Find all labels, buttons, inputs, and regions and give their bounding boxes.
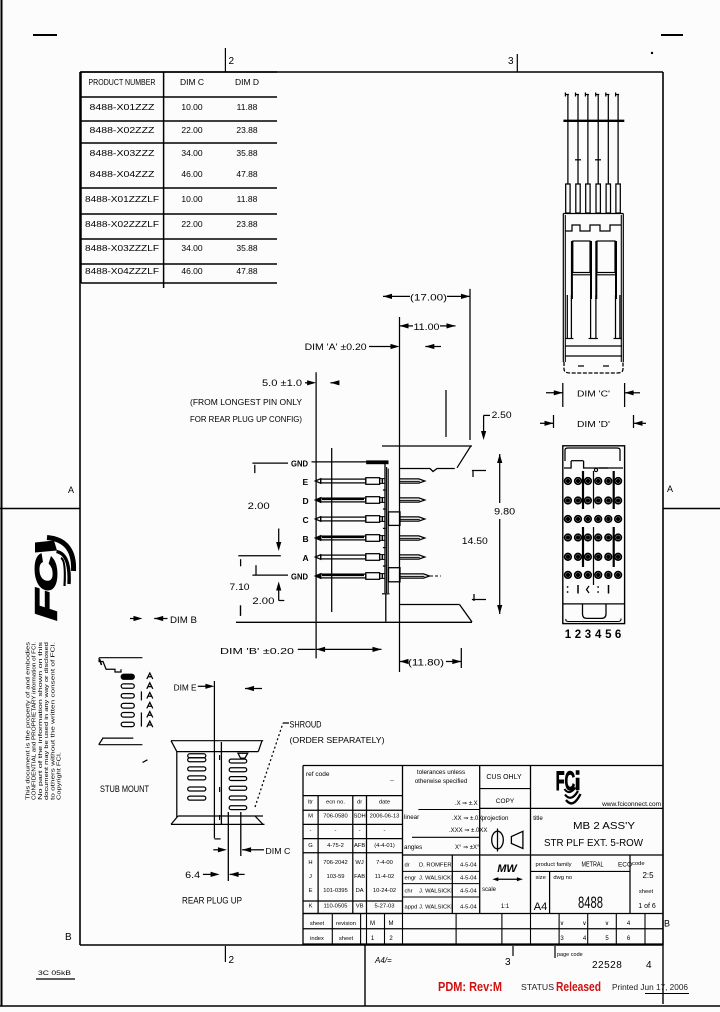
svg-text:STUB MOUNT: STUB MOUNT bbox=[100, 784, 149, 795]
svg-text:4-5-04: 4-5-04 bbox=[460, 905, 478, 911]
svg-text:⇒ ±.X: ⇒ ±.X bbox=[462, 801, 478, 807]
front view: contact grid 6x6 bbox=[565, 478, 622, 579]
svg-text:3: 3 bbox=[560, 936, 564, 942]
svg-text:A4/=: A4/= bbox=[374, 956, 392, 965]
svg-text:22.00: 22.00 bbox=[181, 219, 203, 229]
stub mount view: body bbox=[99, 658, 143, 745]
main view: row A reference bbox=[238, 529, 281, 567]
main view: dimension DIM 'A' +-0.20 bbox=[305, 342, 441, 352]
front view: pin position numbers 1-6 bbox=[565, 629, 622, 641]
svg-text:GND: GND bbox=[291, 459, 308, 469]
title block: outer lines bbox=[303, 766, 663, 946]
svg-text:7-4-00: 7-4-00 bbox=[376, 860, 393, 866]
svg-text:STATUS: STATUS bbox=[521, 983, 554, 992]
svg-text:METRAL: METRAL bbox=[582, 860, 604, 869]
main view: pin row GND bbox=[252, 572, 440, 582]
rear plug up: press-fit legs bbox=[228, 812, 241, 881]
svg-text:4: 4 bbox=[595, 629, 602, 641]
svg-text:35.88: 35.88 bbox=[236, 243, 258, 253]
main view: top GND pin bbox=[252, 459, 388, 474]
rear plug up: body walls bbox=[177, 742, 222, 824]
front view: polarizing ribs bbox=[583, 471, 614, 585]
svg-text:G: G bbox=[308, 843, 313, 849]
svg-text:linear: linear bbox=[404, 814, 419, 821]
title block: projection symbol bbox=[482, 815, 523, 852]
main view: wall serrations bbox=[383, 490, 386, 566]
svg-text:DIM B: DIM B bbox=[170, 615, 197, 625]
svg-text:B: B bbox=[664, 919, 670, 929]
svg-text:4: 4 bbox=[646, 960, 652, 971]
svg-text:9.80: 9.80 bbox=[494, 507, 515, 517]
svg-text:2: 2 bbox=[389, 936, 393, 942]
svg-text:7.10: 7.10 bbox=[230, 582, 250, 592]
svg-text:706-0580: 706-0580 bbox=[323, 814, 348, 820]
side view: bottom cap bbox=[564, 362, 623, 373]
zone labels and ticks bbox=[65, 48, 673, 971]
svg-text:(4-4-01): (4-4-01) bbox=[374, 843, 395, 849]
main view: pin row C bbox=[303, 515, 425, 525]
svg-text:∨: ∨ bbox=[560, 921, 564, 927]
svg-text:GND: GND bbox=[291, 572, 308, 582]
svg-text:8488-X02ZZZ: 8488-X02ZZZ bbox=[90, 125, 155, 135]
svg-text:title: title bbox=[533, 815, 543, 822]
svg-text:page code: page code bbox=[557, 952, 583, 958]
svg-text:sheet: sheet bbox=[310, 921, 325, 927]
svg-text:(FROM LONGEST PIN ONLY: (FROM LONGEST PIN ONLY bbox=[190, 397, 302, 407]
front view: top cavity bbox=[564, 448, 623, 472]
main view: dimension 11.00 bbox=[400, 317, 456, 672]
svg-text:PRODUCT NUMBER: PRODUCT NUMBER bbox=[89, 77, 156, 87]
svg-text:A: A bbox=[303, 553, 309, 563]
svg-text:2.00: 2.00 bbox=[252, 596, 274, 606]
svg-text:X° ⇒ ±X°: X° ⇒ ±X° bbox=[455, 845, 480, 851]
svg-text:2: 2 bbox=[575, 629, 581, 641]
svg-text:14.50: 14.50 bbox=[462, 536, 488, 546]
svg-text:E: E bbox=[303, 477, 309, 487]
left margin: form number bbox=[36, 971, 75, 979]
svg-text:2.50: 2.50 bbox=[492, 410, 512, 420]
svg-text:ecn no.: ecn no. bbox=[326, 800, 345, 806]
dimension DIM 'C' bbox=[546, 383, 640, 407]
svg-text:REAR PLUG UP: REAR PLUG UP bbox=[182, 896, 242, 907]
main view: pitch dim 2.00 lower bbox=[252, 565, 284, 606]
rear plug up: bottom flange bbox=[171, 816, 265, 824]
svg-text:index: index bbox=[310, 936, 324, 942]
svg-text:1:1: 1:1 bbox=[501, 904, 510, 910]
svg-text:to others without the writ: to others without the written consent of… bbox=[50, 642, 56, 800]
left margin: large FCI logo (rotated) bbox=[29, 538, 74, 621]
svg-text:4-5-04: 4-5-04 bbox=[460, 863, 478, 869]
svg-text:FAB: FAB bbox=[354, 874, 365, 880]
svg-text:A4: A4 bbox=[534, 901, 547, 913]
svg-text:11.88: 11.88 bbox=[237, 102, 258, 112]
svg-text:2:5: 2:5 bbox=[642, 871, 654, 880]
svg-text:22528: 22528 bbox=[592, 960, 622, 971]
svg-text:35.88: 35.88 bbox=[236, 148, 258, 158]
side view: contact windows bbox=[572, 241, 616, 299]
svg-text:2.00: 2.00 bbox=[248, 501, 270, 511]
title block: product family row bbox=[531, 860, 633, 872]
svg-text:11.88: 11.88 bbox=[237, 194, 258, 204]
svg-text:3: 3 bbox=[585, 629, 591, 641]
svg-text:3: 3 bbox=[505, 957, 511, 968]
svg-text:4-5-04: 4-5-04 bbox=[460, 876, 478, 882]
svg-text:sheet: sheet bbox=[639, 889, 654, 895]
side view: dashed standoff marks bbox=[575, 159, 601, 161]
svg-text:engr: engr bbox=[405, 876, 417, 882]
side view: base lines bbox=[565, 346, 622, 356]
svg-text:22.00: 22.00 bbox=[181, 125, 203, 135]
main view: mystery extension line bbox=[445, 390, 447, 437]
svg-text:23.88: 23.88 bbox=[236, 219, 258, 229]
main view: dimension 5.0 +-1.0 bbox=[262, 372, 339, 658]
svg-text:DIM E: DIM E bbox=[174, 683, 197, 693]
stub mount view: contact slots bbox=[121, 674, 134, 726]
svg-text:8488-X03ZZZ: 8488-X03ZZZ bbox=[90, 148, 155, 158]
svg-text:5: 5 bbox=[605, 629, 612, 641]
svg-text:MW: MW bbox=[497, 863, 518, 875]
svg-text:-: - bbox=[310, 828, 312, 834]
svg-text:K: K bbox=[309, 904, 313, 910]
svg-text:.XXX ⇒ ±.0XX: .XXX ⇒ ±.0XX bbox=[449, 828, 487, 834]
svg-text:M: M bbox=[308, 814, 313, 820]
note: from longest pin only bbox=[190, 397, 302, 424]
rear plug up: dimension DIM E bbox=[174, 681, 262, 839]
side view: pin shoulders bbox=[566, 184, 621, 213]
title block: size / dwg no bbox=[534, 871, 603, 913]
svg-text:dwg no: dwg no bbox=[553, 875, 572, 881]
svg-text:D. ROMFER: D. ROMFER bbox=[419, 863, 452, 869]
svg-text:3: 3 bbox=[508, 56, 514, 67]
svg-text:A: A bbox=[667, 484, 673, 494]
svg-text:J. WALSICKI: J. WALSICKI bbox=[419, 889, 453, 895]
title block: code / sheet cell bbox=[630, 855, 656, 914]
svg-text:46.00: 46.00 bbox=[181, 169, 203, 179]
svg-text:VB: VB bbox=[356, 904, 364, 910]
svg-text:DA: DA bbox=[356, 888, 364, 894]
svg-text:11-4-02: 11-4-02 bbox=[375, 874, 395, 880]
main view: dimension 9.80 bbox=[472, 454, 515, 614]
svg-text:1: 1 bbox=[371, 936, 375, 942]
svg-text:document may be used in a: document may be used in any way or discl… bbox=[44, 642, 50, 800]
svg-text:47.88: 47.88 bbox=[236, 169, 258, 179]
main view: dimension (11.80) bbox=[400, 648, 462, 668]
svg-text:B: B bbox=[303, 534, 309, 544]
svg-text:23.88: 23.88 bbox=[236, 125, 258, 135]
svg-text:6: 6 bbox=[627, 936, 631, 942]
svg-text:DIM 'C': DIM 'C' bbox=[577, 389, 610, 399]
stub mount view: pin hooks bbox=[141, 673, 152, 727]
main view: pin row D bbox=[303, 496, 425, 506]
svg-text:DIM 'B' ±0.20: DIM 'B' ±0.20 bbox=[220, 646, 294, 656]
rear plug up: shroud top flange bbox=[171, 741, 263, 752]
svg-text:FC: FC bbox=[29, 554, 64, 620]
svg-text:scale: scale bbox=[482, 887, 497, 893]
svg-text:M: M bbox=[370, 921, 375, 927]
svg-text:SDH: SDH bbox=[353, 814, 365, 820]
title block: tolerance box bbox=[403, 766, 531, 914]
svg-text:1: 1 bbox=[565, 629, 572, 641]
svg-text:PDM: Rev:M: PDM: Rev:M bbox=[438, 980, 502, 994]
svg-text:Printed Jun 17, 2006: Printed Jun 17, 2006 bbox=[612, 982, 688, 992]
svg-text:5.0 ±1.0: 5.0 ±1.0 bbox=[262, 378, 302, 388]
svg-text:34.00: 34.00 bbox=[181, 148, 203, 158]
svg-text:4-5-04: 4-5-04 bbox=[460, 889, 478, 895]
svg-text:STR PLF EXT. 5-ROW: STR PLF EXT. 5-ROW bbox=[544, 838, 644, 849]
svg-text:ltr: ltr bbox=[308, 800, 313, 806]
svg-text:.XX ⇒ ±.0X: .XX ⇒ ±.0X bbox=[452, 816, 482, 822]
svg-text:∨: ∨ bbox=[582, 921, 586, 927]
svg-text:date: date bbox=[379, 800, 390, 806]
svg-text:∨: ∨ bbox=[605, 921, 609, 927]
svg-text:J: J bbox=[309, 874, 312, 880]
svg-text:revision: revision bbox=[336, 921, 356, 927]
svg-text:AFB: AFB bbox=[354, 843, 365, 849]
svg-text:2: 2 bbox=[229, 955, 235, 966]
dimension DIM 'D' bbox=[540, 415, 646, 429]
svg-text:5: 5 bbox=[605, 936, 609, 942]
svg-text:D: D bbox=[303, 496, 309, 506]
svg-text:size: size bbox=[536, 875, 546, 881]
svg-text:ref code: ref code bbox=[306, 771, 330, 778]
main view: pin row B bbox=[303, 534, 425, 544]
svg-text:3C 05kB: 3C 05kB bbox=[38, 971, 71, 977]
svg-text:10.00: 10.00 bbox=[181, 102, 203, 112]
svg-text:FOR REAR PLUG UP CONFIG): FOR REAR PLUG UP CONFIG) bbox=[190, 414, 302, 424]
main view: dim 7.10 bbox=[230, 582, 250, 616]
title block: approvals bbox=[403, 855, 480, 914]
stub mount: dimension DIM B bbox=[130, 615, 197, 625]
svg-text:SHROUD: SHROUD bbox=[290, 720, 322, 730]
side view: connector body bbox=[563, 214, 623, 363]
svg-text:47.88: 47.88 bbox=[236, 266, 258, 276]
svg-text:(11.80): (11.80) bbox=[408, 658, 444, 668]
svg-text:DIM D: DIM D bbox=[235, 77, 259, 87]
svg-text:8488-X04ZZZLF: 8488-X04ZZZLF bbox=[85, 266, 159, 276]
title block: FCI logo bbox=[531, 766, 662, 914]
svg-text:4: 4 bbox=[583, 936, 587, 942]
stub mount view: stray tick bbox=[143, 760, 148, 763]
svg-text:101-0395: 101-0395 bbox=[323, 888, 348, 894]
svg-text:.X: .X bbox=[455, 801, 461, 807]
svg-text:10-24-02: 10-24-02 bbox=[373, 888, 396, 894]
label SHROUD (order separately) bbox=[290, 720, 385, 746]
svg-text:projection: projection bbox=[482, 815, 509, 822]
svg-text:COPY: COPY bbox=[496, 798, 515, 805]
svg-text:2: 2 bbox=[229, 56, 235, 67]
main view: pitch dim 2.00 upper bbox=[248, 501, 270, 511]
svg-text:angles: angles bbox=[404, 844, 422, 851]
side view: press-fit slots bbox=[565, 295, 622, 339]
svg-text:CONFIDENTIAL and PROPRIETARY: CONFIDENTIAL and PROPRIETARY information… bbox=[32, 642, 38, 800]
svg-text:6: 6 bbox=[615, 629, 621, 641]
svg-text:DIM C: DIM C bbox=[265, 846, 290, 856]
svg-text:DIM C: DIM C bbox=[180, 77, 204, 87]
front view: mold marks row bbox=[567, 585, 609, 594]
svg-text:DIM 'D': DIM 'D' bbox=[577, 419, 610, 429]
svg-text:www.fciconnect.com: www.fciconnect.com bbox=[601, 801, 661, 808]
svg-text:chr: chr bbox=[405, 889, 413, 895]
svg-text:This document is the prope: This document is the property of and emb… bbox=[26, 641, 32, 800]
svg-text:tolerances unless: tolerances unless bbox=[417, 769, 465, 776]
svg-text:WJ: WJ bbox=[355, 860, 363, 866]
svg-text:-: - bbox=[359, 828, 361, 834]
svg-text:5-27-03: 5-27-03 bbox=[375, 904, 395, 910]
left margin: confidentiality note (rotated) bbox=[26, 641, 63, 800]
svg-text:11.00: 11.00 bbox=[414, 322, 440, 332]
svg-text:1 of 6: 1 of 6 bbox=[638, 903, 656, 910]
svg-text:otherwise specified: otherwise specified bbox=[415, 778, 468, 785]
rear plug up: right slot column bbox=[229, 753, 248, 809]
rear plug up: dimension DIM C bbox=[213, 846, 290, 856]
svg-text:Released: Released bbox=[556, 980, 601, 994]
svg-text:8488-X04ZZZ: 8488-X04ZZZ bbox=[90, 169, 155, 179]
title block: scale cell with MW mark bbox=[482, 863, 523, 910]
svg-text:dr: dr bbox=[405, 863, 410, 869]
main view: dimension DIM 'B' +-0.20 bbox=[220, 646, 382, 656]
svg-text:A: A bbox=[68, 485, 74, 495]
main view: latch box C bbox=[389, 512, 401, 526]
svg-text:8488-X01ZZZLF: 8488-X01ZZZLF bbox=[85, 194, 159, 204]
svg-text:8488-X01ZZZ: 8488-X01ZZZ bbox=[90, 102, 155, 112]
svg-text:M: M bbox=[389, 921, 394, 927]
svg-text:H: H bbox=[308, 860, 312, 866]
svg-text:J. WALSICKI: J. WALSICKI bbox=[419, 876, 453, 882]
front view: bottom cap bbox=[563, 604, 625, 622]
side view: board reference line bbox=[563, 120, 624, 122]
svg-text:Copyright FCI.: Copyright FCI. bbox=[57, 752, 63, 800]
title block: sheet index rows bbox=[303, 914, 663, 945]
svg-text:8488-X02ZZZLF: 8488-X02ZZZLF bbox=[85, 219, 159, 229]
svg-text:8488: 8488 bbox=[578, 893, 603, 912]
svg-text:CUS OHLY: CUS OHLY bbox=[486, 774, 522, 781]
title block: title cell bbox=[531, 815, 664, 855]
main view: dimension 2.50 bbox=[481, 410, 512, 440]
title block: ref code cell bbox=[306, 771, 394, 784]
svg-text:J. WALSICKI: J. WALSICKI bbox=[419, 905, 453, 911]
product number table bbox=[81, 72, 277, 288]
svg-text:MB 2 ASS'Y: MB 2 ASS'Y bbox=[573, 821, 635, 832]
svg-text:10.00: 10.00 bbox=[181, 194, 203, 204]
svg-text:appd: appd bbox=[405, 905, 418, 911]
svg-text:product family: product family bbox=[536, 862, 572, 868]
shroud callout leader bbox=[255, 723, 289, 807]
front view: housing outline bbox=[563, 446, 625, 624]
svg-text:--: -- bbox=[390, 778, 394, 784]
svg-text:B: B bbox=[65, 932, 72, 943]
svg-text:103-59: 103-59 bbox=[326, 874, 344, 880]
svg-text:4: 4 bbox=[627, 921, 631, 927]
title block: CUS ONLY / COPY cell bbox=[480, 774, 663, 808]
svg-text:code: code bbox=[632, 861, 645, 867]
svg-text:4-75-2: 4-75-2 bbox=[327, 843, 344, 849]
svg-text:110-0505: 110-0505 bbox=[323, 904, 347, 910]
svg-text:8488-X03ZZZLF: 8488-X03ZZZLF bbox=[85, 243, 159, 253]
svg-text:706-2042: 706-2042 bbox=[323, 860, 348, 866]
svg-text:No part of the information: No part of the information shown on this bbox=[38, 641, 44, 800]
svg-text:(ORDER SEPARATELY): (ORDER SEPARATELY) bbox=[290, 735, 385, 745]
rear plug up: left slot column bbox=[188, 754, 206, 800]
rear plug up: dimension 6.4 bbox=[185, 870, 244, 880]
bottom strip: PDM status texts bbox=[438, 980, 689, 994]
svg-text:(17.00): (17.00) bbox=[410, 293, 447, 303]
svg-text:sheet: sheet bbox=[339, 936, 354, 942]
svg-text:2006-06-13: 2006-06-13 bbox=[370, 814, 400, 820]
svg-text:46.00: 46.00 bbox=[181, 266, 203, 276]
title block: revision history table bbox=[303, 766, 403, 914]
main view: latch box GND bbox=[389, 568, 401, 582]
svg-text:dr: dr bbox=[357, 800, 362, 806]
svg-text:6.4: 6.4 bbox=[185, 870, 200, 880]
svg-text:C: C bbox=[303, 515, 309, 525]
main view: pin row A bbox=[303, 553, 425, 563]
main view: dimension (17.00) bbox=[383, 289, 470, 440]
svg-text:-: - bbox=[335, 828, 337, 834]
side view: 6 pins bbox=[565, 93, 619, 185]
main view: pin row E bbox=[303, 477, 425, 487]
svg-text:E: E bbox=[309, 888, 313, 894]
svg-text:34.00: 34.00 bbox=[181, 243, 203, 253]
svg-text:DIM 'A' ±0.20: DIM 'A' ±0.20 bbox=[305, 342, 367, 352]
main view: housing body bbox=[236, 446, 474, 622]
svg-text:-: - bbox=[384, 828, 386, 834]
